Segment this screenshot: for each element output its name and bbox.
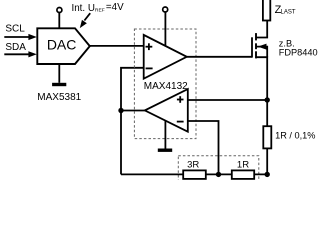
arrowhead SDA (28, 51, 36, 57)
dashed box divider (178, 156, 258, 183)
op-amp U2B plus (177, 99, 184, 101)
svg-text:3R: 3R (187, 160, 199, 171)
transistor Q1 source stub (256, 57, 267, 126)
resistor R1 sense body (263, 126, 271, 148)
svg-text:1R: 1R (237, 160, 249, 171)
svg-text:LAST: LAST (281, 9, 296, 15)
resistor Zlast body (263, 0, 270, 21)
wire op-amp U2B - feedback (188, 121, 219, 174)
wire bottom rail (121, 173, 267, 175)
transistor Q1 channel segments (255, 33, 257, 40)
wire op-amp U2A inverting input and feedback drop (121, 68, 144, 175)
svg-text:MAX4132: MAX4132 (144, 81, 188, 92)
wire DAC output to op-amp U2A + input (90, 45, 144, 47)
wire DAC ref terminal stub (58, 13, 60, 28)
wire DAC ground stub (58, 64, 60, 83)
svg-text:SCL: SCL (5, 23, 25, 34)
ground op-amp U2B (158, 149, 172, 152)
ground DAC (52, 83, 66, 86)
resistor R2 body 1R (232, 170, 254, 179)
svg-text:FDP8440: FDP8440 (279, 47, 318, 57)
wire op-amp U2A output to gate (187, 56, 252, 58)
node divider tap (216, 172, 221, 177)
node source sense tap (265, 97, 270, 102)
node rail right (265, 172, 270, 177)
wire sense resistor to rail (266, 148, 268, 174)
resistor R3 body 3R (183, 170, 206, 179)
wire SCL input (4, 36, 29, 38)
transistor Q1 gate bar (251, 37, 253, 57)
dashed box MAX4132 (134, 29, 196, 139)
op-amp U2A triangle (144, 35, 187, 79)
wire SDA input (4, 53, 29, 55)
svg-text:MAX5381: MAX5381 (37, 92, 81, 103)
op-amp U2B minus (177, 121, 184, 123)
transistor Q1 body terminal (257, 47, 268, 58)
DAC U1 MAX5381 body (37, 28, 90, 64)
svg-text:DAC: DAC (47, 36, 77, 52)
wire op-amp supply stub (164, 12, 166, 46)
node feedback junction (118, 108, 123, 113)
transistor Q1 drain stub (256, 21, 267, 38)
annotation arrow to DAC (84, 13, 90, 20)
op-amp U2B triangle (145, 89, 188, 132)
wire op-amp U2B ground stub (164, 121, 166, 149)
terminal circle Uref (57, 8, 62, 13)
arrowhead SCL (28, 34, 36, 40)
terminal circle supply (163, 7, 168, 12)
svg-text:SDA: SDA (5, 42, 26, 53)
op-amp U2A minus (146, 67, 153, 69)
wire op-amp U2B + input (188, 99, 267, 101)
op-amp U2A plus (146, 46, 153, 48)
svg-text:1R / 0,1%: 1R / 0,1% (275, 130, 315, 140)
wire op-amp U2B output to node (121, 110, 145, 112)
